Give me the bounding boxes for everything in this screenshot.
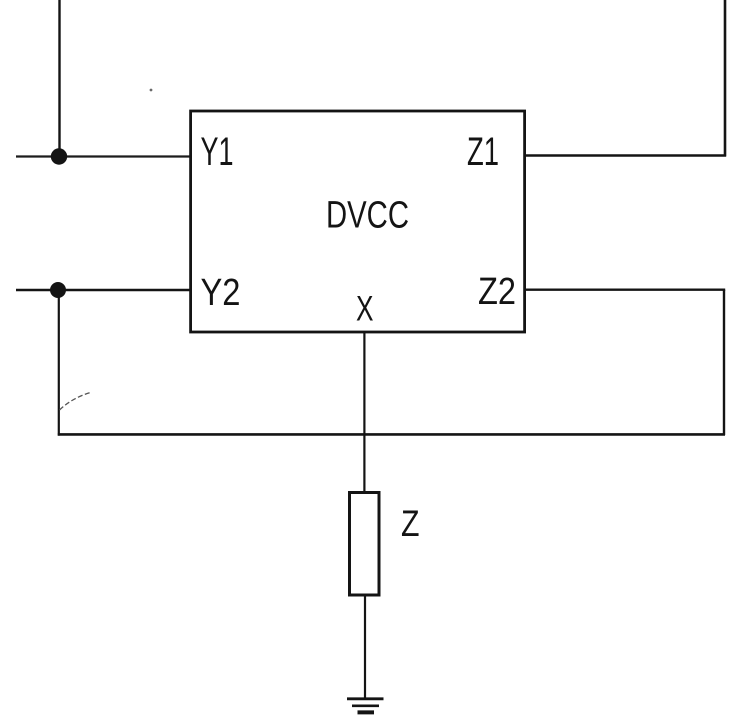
node: junction on Y2 wire — [50, 282, 66, 298]
svg-text:Z1: Z1 — [467, 130, 499, 174]
wire: Y2 input horizontal — [16, 289, 191, 291]
impedance Z body (resistor) — [350, 493, 380, 596]
wire: Z2 output horizontal — [524, 289, 725, 291]
node: junction on Y1 wire — [51, 148, 67, 164]
svg-text:DVCC: DVCC — [326, 195, 409, 237]
wire: X output vertical — [363, 333, 365, 493]
wire: Z1 output horizontal — [524, 154, 726, 156]
op-amp block U1 DVCC — [191, 111, 525, 332]
stray scan speck — [150, 89, 153, 92]
svg-text:Z2: Z2 — [478, 271, 516, 313]
wire: left feedback vertical — [58, 290, 60, 436]
stray scan arc artifact — [60, 393, 91, 411]
wire: bottom feedback horizontal — [58, 433, 725, 436]
wire: top-left vertical input — [58, 0, 60, 157]
wire: right vertical from Z2 down to feedback — [723, 290, 725, 435]
svg-text:Y2: Y2 — [201, 272, 241, 314]
svg-text:Z: Z — [401, 503, 420, 544]
svg-text:Y1: Y1 — [201, 130, 234, 174]
ground — [347, 699, 384, 713]
svg-text:X: X — [356, 290, 374, 329]
wire: top-right vertical from Z1 — [724, 0, 727, 157]
wire: impedance to ground vertical — [364, 595, 366, 699]
wire: Y1 input horizontal — [16, 155, 191, 157]
